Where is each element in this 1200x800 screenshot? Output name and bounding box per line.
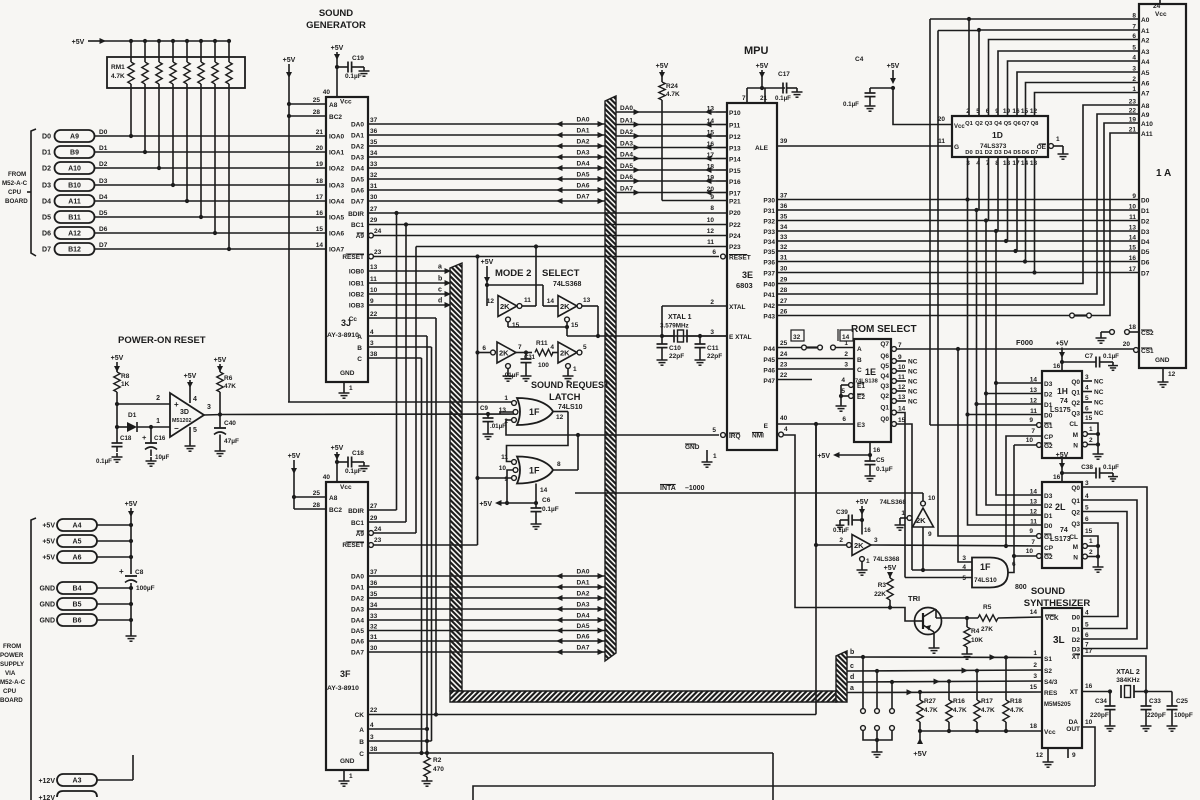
svg-text:IOB3: IOB3 <box>349 303 365 310</box>
svg-text:D6: D6 <box>99 226 108 233</box>
wire bus to MPU P11 <box>616 124 716 126</box>
svg-text:74LS368: 74LS368 <box>880 499 907 506</box>
wire address A5 from 1D <box>1017 72 1139 116</box>
svg-text:+5V: +5V <box>288 453 301 460</box>
svg-text:P37: P37 <box>763 271 775 278</box>
svg-text:+5V: +5V <box>856 499 869 506</box>
wire address A3 from 1D <box>998 51 1139 116</box>
MPU pin P11 14 <box>716 124 727 126</box>
svg-text:30: 30 <box>370 645 378 652</box>
wire data D0 MPU to ROM connector <box>777 199 1139 201</box>
svg-text:24: 24 <box>374 526 382 533</box>
svg-text:Q3: Q3 <box>1071 521 1080 528</box>
wire data D1 to 2L <box>977 404 1043 515</box>
svg-text:a: a <box>850 685 854 692</box>
wire 3F DA0 to bus <box>368 575 605 577</box>
wire data D4 MPU to ROM connector <box>777 240 1139 242</box>
svg-text:100pF: 100pF <box>1174 712 1193 719</box>
svg-text:13: 13 <box>370 264 378 271</box>
svg-text:DA0: DA0 <box>351 122 364 129</box>
svg-text:D4: D4 <box>99 194 108 201</box>
svg-text:Q6: Q6 <box>880 353 889 360</box>
svg-text:c: c <box>438 287 442 294</box>
svg-text:Q1: Q1 <box>880 405 889 412</box>
wire address A9 riser <box>777 114 1139 294</box>
svg-text:74LS368: 74LS368 <box>873 556 900 563</box>
svg-text:24: 24 <box>374 228 382 235</box>
wire bus to MPU P12 <box>616 135 716 137</box>
capacitor C10 22pF <box>660 334 664 338</box>
svg-text:C5: C5 <box>876 457 885 464</box>
svg-text:36: 36 <box>370 580 378 587</box>
svg-text:12: 12 <box>1030 108 1038 115</box>
wire address A11 riser with jumper <box>777 315 1069 317</box>
svg-text:A9: A9 <box>356 233 365 240</box>
ground for OE <box>1062 150 1064 154</box>
svg-text:R2: R2 <box>433 757 442 764</box>
svg-text:16: 16 <box>1053 474 1061 481</box>
svg-text:RESET: RESET <box>342 542 364 549</box>
svg-text:9: 9 <box>1072 752 1076 759</box>
svg-text:4.7K: 4.7K <box>924 707 938 714</box>
svg-text:SOUND REQUEST: SOUND REQUEST <box>531 380 610 390</box>
svg-text:18: 18 <box>1003 160 1011 167</box>
1H pin M 1 <box>1083 432 1088 437</box>
svg-text:2: 2 <box>710 299 714 306</box>
inverter 2K 12-11 pin 15 <box>506 317 511 322</box>
wire bus to MPU P17 <box>616 192 716 194</box>
svg-text:XTAL: XTAL <box>729 304 746 311</box>
svg-text:0.1µF: 0.1µF <box>1103 464 1119 471</box>
RM1 pull-up element 4 <box>185 39 189 43</box>
svg-text:DA0: DA0 <box>351 574 364 581</box>
svg-text:30: 30 <box>780 266 788 273</box>
svg-text:37: 37 <box>370 569 378 576</box>
svg-text:0.1µF: 0.1µF <box>843 101 859 108</box>
svg-text:E2: E2 <box>857 394 865 401</box>
svg-text:G: G <box>954 144 959 151</box>
ground for C17 <box>796 88 798 92</box>
capacitor C18b 0.1uF <box>335 460 339 464</box>
svg-text:R8: R8 <box>121 373 130 380</box>
RM1 pull-up element 1 <box>143 39 147 43</box>
svg-text:+5V: +5V <box>481 259 494 266</box>
svg-text:D5: D5 <box>42 215 51 222</box>
svg-text:IOA0: IOA0 <box>329 134 345 141</box>
svg-text:XT: XT <box>1070 689 1078 696</box>
svg-text:10: 10 <box>1085 719 1093 726</box>
svg-text:32: 32 <box>780 244 788 251</box>
wire data D3 to 1H <box>996 382 1042 384</box>
svg-text:P17: P17 <box>729 191 741 198</box>
svg-text:3: 3 <box>844 362 848 369</box>
svg-text:29: 29 <box>780 277 788 284</box>
wire latch reset input 9 <box>478 477 512 479</box>
svg-text:2: 2 <box>1089 549 1093 556</box>
svg-text:S4/3: S4/3 <box>1044 679 1058 686</box>
svg-text:D3: D3 <box>42 183 51 190</box>
svg-text:C40: C40 <box>224 420 236 427</box>
svg-text:25: 25 <box>780 340 788 347</box>
svg-text:D3: D3 <box>1044 381 1053 388</box>
svg-text:P15: P15 <box>729 168 741 175</box>
svg-text:1: 1 <box>1089 426 1093 433</box>
svg-text:18: 18 <box>1129 324 1137 331</box>
svg-text:D3: D3 <box>1141 229 1150 236</box>
svg-text:A11: A11 <box>68 199 81 206</box>
svg-text:9: 9 <box>1132 193 1136 200</box>
MPU pin IRQ-bar 5 <box>721 433 726 438</box>
svg-text:27: 27 <box>370 206 378 213</box>
capacitor C39 0.1uF <box>860 518 864 522</box>
svg-text:35: 35 <box>780 214 788 221</box>
IC 3L M5M5205 sound synthesizer <box>1042 608 1082 748</box>
wire BDIR net to MPU P20 <box>397 212 728 214</box>
svg-text:P24: P24 <box>729 233 741 240</box>
svg-text:NC: NC <box>1094 379 1104 386</box>
wire data D1 tap to 1D <box>978 157 980 210</box>
ground for power input <box>130 620 132 632</box>
svg-text:47µF: 47µF <box>224 438 239 445</box>
svg-text:D1: D1 <box>42 150 51 157</box>
svg-text:SUPPLY: SUPPLY <box>0 661 25 668</box>
svg-text:10: 10 <box>499 465 507 472</box>
svg-text:D5: D5 <box>1141 249 1150 256</box>
wire 3J DA5 to bus <box>368 178 605 180</box>
svg-text:P13: P13 <box>729 146 741 153</box>
svg-text:C19: C19 <box>352 55 364 62</box>
svg-text:DA7: DA7 <box>576 645 589 652</box>
svg-text:G2: G2 <box>1044 443 1053 450</box>
MPU pin XTAL 2 <box>662 305 727 307</box>
svg-text:A: A <box>857 346 862 353</box>
wire data line D4 <box>95 200 327 202</box>
svg-text:20: 20 <box>316 145 324 152</box>
svg-text:D3: D3 <box>99 178 108 185</box>
svg-text:1E: 1E <box>865 367 876 377</box>
svg-text:6: 6 <box>1085 406 1089 413</box>
svg-text:3: 3 <box>370 340 374 347</box>
3F ground pin 1 <box>343 770 345 777</box>
svg-text:IOA7: IOA7 <box>329 247 345 254</box>
svg-text:MPU: MPU <box>744 45 769 57</box>
svg-text:R5: R5 <box>983 604 992 611</box>
capacitor C38 0.1uF <box>1062 472 1096 474</box>
svg-text:AY-3-8910: AY-3-8910 <box>327 685 359 692</box>
wire data line D1 <box>95 151 327 153</box>
wire TRI collector to R5 <box>935 609 937 618</box>
svg-text:A7: A7 <box>1141 91 1150 98</box>
svg-text:NC: NC <box>908 359 918 366</box>
svg-text:2: 2 <box>839 537 843 544</box>
wire data D3 tap to 1D <box>997 157 999 231</box>
svg-text:38: 38 <box>370 351 378 358</box>
svg-text:13: 13 <box>1129 225 1137 232</box>
svg-text:D0: D0 <box>42 134 51 141</box>
svg-text:4.7K: 4.7K <box>666 91 680 98</box>
svg-text:8: 8 <box>557 461 561 468</box>
svg-text:B11: B11 <box>68 215 81 222</box>
svg-text:D4: D4 <box>42 199 51 206</box>
wire TRI emitter to ground <box>933 632 935 644</box>
svg-text:5: 5 <box>1085 505 1089 512</box>
wire Vcc rail to 3L pin 18 <box>920 730 1042 732</box>
svg-text:+5V: +5V <box>72 39 85 46</box>
svg-text:11: 11 <box>370 276 377 283</box>
svg-text:P22: P22 <box>729 222 741 229</box>
svg-text:Q8: Q8 <box>1031 121 1040 127</box>
wire address A6 from 1D <box>1026 83 1140 117</box>
svg-text:GND: GND <box>685 444 700 451</box>
svg-text:BC1: BC1 <box>351 520 364 527</box>
wire data line D6 <box>95 232 327 234</box>
MPU pin P17 20 <box>716 192 727 194</box>
svg-text:P12: P12 <box>729 134 741 141</box>
wire A0 extension to 1H G1 <box>967 17 971 21</box>
svg-text:P41: P41 <box>763 292 775 299</box>
svg-text:14: 14 <box>540 487 548 494</box>
svg-text:10: 10 <box>1026 548 1034 555</box>
svg-text:9: 9 <box>710 194 714 201</box>
ground for CS2 jumper <box>1100 334 1102 338</box>
wire data D7 MPU to ROM connector <box>777 272 1139 274</box>
svg-text:11: 11 <box>707 239 714 246</box>
svg-text:1: 1 <box>1056 136 1060 143</box>
svg-text:GND: GND <box>340 758 355 765</box>
svg-text:B5: B5 <box>73 602 82 609</box>
svg-text:IOA4: IOA4 <box>329 199 345 206</box>
svg-text:28: 28 <box>313 502 321 509</box>
svg-text:P10: P10 <box>729 110 741 117</box>
wire 3F DA1 to bus <box>368 586 605 588</box>
svg-text:CPU: CPU <box>8 189 22 196</box>
svg-text:+5V: +5V <box>756 63 769 70</box>
svg-text:0.1µF: 0.1µF <box>96 458 112 465</box>
svg-text:D5: D5 <box>99 210 108 217</box>
svg-text:DA1: DA1 <box>620 118 633 125</box>
svg-text:14: 14 <box>1129 235 1137 242</box>
svg-text:D2: D2 <box>1072 637 1081 644</box>
svg-text:P47: P47 <box>763 378 775 385</box>
svg-text:6: 6 <box>1132 33 1136 40</box>
wire P23 net to 3F A9 <box>416 246 727 248</box>
wire inverter 11 output up to P23 line <box>535 247 537 307</box>
svg-text:7: 7 <box>742 95 746 102</box>
svg-text:D1: D1 <box>1141 208 1150 215</box>
svg-text:37: 37 <box>780 193 788 200</box>
svg-text:6: 6 <box>482 345 486 352</box>
svg-text:BC2: BC2 <box>329 507 342 514</box>
wire 3F DA5 to bus <box>368 630 605 632</box>
svg-text:DA5: DA5 <box>576 172 589 179</box>
svg-text:3: 3 <box>1085 480 1089 487</box>
svg-text:1F: 1F <box>980 562 991 572</box>
ground for R4 <box>966 650 968 654</box>
svg-text:C16: C16 <box>154 435 166 442</box>
svg-text:3: 3 <box>207 404 211 411</box>
svg-text:.01µF: .01µF <box>503 372 519 379</box>
1H pin N 2 <box>1083 442 1088 447</box>
svg-text:74LS368: 74LS368 <box>553 281 582 288</box>
svg-text:2: 2 <box>1033 662 1037 669</box>
svg-text:3L: 3L <box>1053 635 1065 646</box>
svg-text:D7: D7 <box>42 247 51 254</box>
svg-text:7: 7 <box>1031 428 1035 435</box>
power +5V for synthesizer rail <box>919 731 921 744</box>
svg-text:74LS373: 74LS373 <box>980 143 1007 150</box>
svg-text:A4: A4 <box>73 523 82 530</box>
wire latch feedback in2 from output 8 net <box>506 420 578 435</box>
wire data D2 to 2L <box>986 394 1042 506</box>
svg-text:17: 17 <box>1129 266 1137 273</box>
svg-text:CP: CP <box>1044 434 1054 441</box>
wire data D2 MPU to ROM connector <box>777 220 1139 222</box>
svg-text:Q4: Q4 <box>880 373 889 380</box>
svg-text:Cc: Cc <box>349 316 358 323</box>
svg-text:E XTAL: E XTAL <box>729 334 752 341</box>
wire 3F DA6 to bus <box>368 640 605 642</box>
svg-text:C9: C9 <box>480 405 488 412</box>
svg-text:+5V: +5V <box>884 565 897 572</box>
svg-text:15: 15 <box>512 322 520 329</box>
bracket FROM M52-A-C CPU BOARD <box>31 129 36 256</box>
svg-text:A9: A9 <box>70 134 79 141</box>
svg-text:DA5: DA5 <box>351 177 364 184</box>
wire A0 select to G1 <box>930 424 1036 426</box>
3J ground pin 1 <box>343 382 345 389</box>
RM1 pull-up element 7 <box>227 39 231 43</box>
capacitor C5 0.1uF <box>869 455 871 461</box>
svg-text:RESET: RESET <box>729 255 751 262</box>
svg-text:470: 470 <box>433 766 444 773</box>
svg-text:13: 13 <box>1030 160 1038 167</box>
2L pin M 1 <box>1083 544 1088 549</box>
svg-text:5: 5 <box>1085 395 1089 402</box>
svg-text:20: 20 <box>1123 341 1131 348</box>
svg-text:DA3: DA3 <box>351 607 364 614</box>
svg-text:B: B <box>357 345 362 352</box>
svg-text:B9: B9 <box>70 150 79 157</box>
wire 1E Q1 down to gate <box>897 413 905 578</box>
svg-text:S1: S1 <box>1044 656 1052 663</box>
resistor R8 1K <box>114 372 120 392</box>
svg-text:P16: P16 <box>729 179 741 186</box>
wire bus to MPU P16 <box>616 180 716 182</box>
svg-text:DA4: DA4 <box>576 161 589 168</box>
svg-text:DA1: DA1 <box>576 128 589 135</box>
wire data D5 tap to 1D <box>1016 157 1018 251</box>
wire latch cross-coupling out12 to in11 <box>507 412 569 462</box>
svg-text:DA3: DA3 <box>576 602 589 609</box>
wire 3J DA7 to bus <box>368 200 605 202</box>
capacitor C33 220pF <box>1145 692 1147 707</box>
svg-text:40: 40 <box>323 474 331 481</box>
svg-text:C: C <box>357 356 362 363</box>
svg-text:1: 1 <box>844 340 848 347</box>
resistor R11 100 <box>535 349 553 355</box>
svg-text:5: 5 <box>583 344 587 351</box>
svg-text:C4: C4 <box>855 56 864 63</box>
wire data line D0 <box>95 135 327 137</box>
svg-text:2K: 2K <box>854 541 864 550</box>
svg-text:A4: A4 <box>1141 59 1150 66</box>
IC 3J AY-3-8910 sound generator <box>326 97 368 382</box>
svg-text:33: 33 <box>370 161 378 168</box>
svg-text:R6: R6 <box>224 375 233 382</box>
svg-text:M51202: M51202 <box>172 418 191 424</box>
svg-text:24: 24 <box>780 351 788 358</box>
svg-text:0.1µF: 0.1µF <box>833 527 849 534</box>
svg-text:NC: NC <box>908 399 918 406</box>
svg-text:12: 12 <box>898 384 906 391</box>
wire latch set input from +5V rail <box>288 401 513 403</box>
svg-text:+5V: +5V <box>214 357 227 364</box>
svg-text:NC: NC <box>908 379 918 386</box>
svg-text:DA6: DA6 <box>351 639 364 646</box>
wire 3J DA1 to bus <box>368 134 605 136</box>
svg-text:B6: B6 <box>73 618 82 625</box>
svg-text:2K: 2K <box>560 349 570 358</box>
svg-text:BOARD: BOARD <box>5 198 28 205</box>
RM1 pull-up element 5 <box>199 39 203 43</box>
svg-text:BC1: BC1 <box>351 222 364 229</box>
jumper link ROM size <box>1070 313 1075 318</box>
wire 2L Q1 to synthesizer <box>1082 500 1137 639</box>
svg-text:SELECT: SELECT <box>542 268 580 279</box>
svg-text:DA1: DA1 <box>351 133 364 140</box>
svg-text:74: 74 <box>1060 398 1068 405</box>
svg-text:2: 2 <box>1132 76 1136 83</box>
wire bus to MPU P15 <box>616 169 716 171</box>
svg-text:7: 7 <box>1132 24 1136 31</box>
svg-text:M52-A-C: M52-A-C <box>0 679 26 686</box>
wire RESET net to MPU <box>475 254 479 258</box>
ground for 3L <box>1047 758 1049 762</box>
wire bus to MPU P14 <box>616 158 716 160</box>
svg-text:P40: P40 <box>763 282 775 289</box>
svg-text:DA1: DA1 <box>351 585 364 592</box>
svg-text:P35: P35 <box>763 249 775 256</box>
svg-text:A9: A9 <box>1141 112 1150 119</box>
svg-text:DA2: DA2 <box>576 139 589 146</box>
wire data D0 tap to 1D <box>967 157 969 200</box>
svg-text:12: 12 <box>707 228 715 235</box>
svg-text:14: 14 <box>1030 609 1038 616</box>
svg-text:2K: 2K <box>916 516 926 525</box>
svg-text:4: 4 <box>784 426 788 433</box>
svg-text:XTAL 1: XTAL 1 <box>668 314 692 321</box>
svg-text:C18: C18 <box>120 435 132 442</box>
svg-text:DA2: DA2 <box>351 144 364 151</box>
svg-text:E: E <box>764 423 769 430</box>
wire F000 select to CS1 <box>897 348 1134 350</box>
svg-text:A2: A2 <box>1141 38 1150 45</box>
svg-text:C10: C10 <box>669 345 681 352</box>
svg-text:ROM SELECT: ROM SELECT <box>851 324 917 335</box>
svg-text:D0: D0 <box>1044 413 1053 420</box>
svg-text:–1000: –1000 <box>685 485 705 492</box>
svg-text:C39: C39 <box>836 509 848 516</box>
svg-text:POWER-ON RESET: POWER-ON RESET <box>118 335 206 346</box>
svg-text:74LS10: 74LS10 <box>974 577 997 584</box>
svg-text:27: 27 <box>780 298 788 305</box>
svg-text:2: 2 <box>844 351 848 358</box>
svg-text:+5V: +5V <box>817 453 830 460</box>
wire net a to RES <box>847 691 1042 694</box>
svg-text:10K: 10K <box>971 637 983 644</box>
wire data D0 to 2L <box>968 415 1043 526</box>
svg-text:11: 11 <box>898 374 905 381</box>
